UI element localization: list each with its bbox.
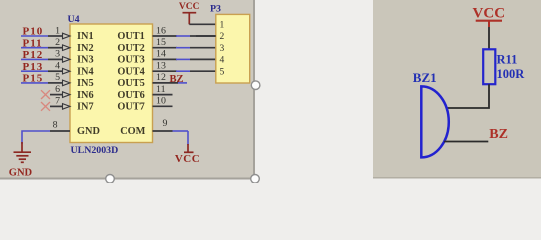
svg-text:P11: P11 <box>23 37 43 49</box>
right schematic panel background <box>373 0 541 178</box>
wire pin 8 to ground <box>22 131 50 144</box>
ground symbol GND <box>14 142 32 162</box>
svg-text:100R: 100R <box>497 67 526 81</box>
svg-text:IN6: IN6 <box>77 90 94 101</box>
svg-text:13: 13 <box>156 61 166 72</box>
svg-text:BZ1: BZ1 <box>413 70 437 85</box>
power symbol VCC (top, P3 pin 1) <box>183 13 197 25</box>
svg-text:11: 11 <box>156 84 166 95</box>
svg-text:OUT6: OUT6 <box>117 90 144 101</box>
pin 3 IN3 <box>48 49 70 63</box>
svg-text:GND: GND <box>9 168 33 179</box>
pin 12 OUT5 wire with net BZ <box>153 72 188 83</box>
svg-text:4: 4 <box>220 56 225 66</box>
svg-text:5: 5 <box>220 67 225 77</box>
selection handle bottom-right <box>251 175 260 184</box>
svg-text:ULN2003D: ULN2003D <box>71 145 119 156</box>
no-connect X on pin 6 <box>41 90 50 99</box>
pin 5 IN5 <box>48 72 70 86</box>
svg-text:P12: P12 <box>23 49 44 61</box>
svg-text:R11: R11 <box>497 53 518 67</box>
wire VCC to P3 pin 1 <box>189 23 216 25</box>
svg-text:P15: P15 <box>23 73 44 85</box>
pin 2 IN2 <box>48 37 70 51</box>
P3 pin numbers 1-5 <box>220 21 225 78</box>
svg-text:GND: GND <box>77 126 100 137</box>
svg-text:9: 9 <box>163 118 168 129</box>
svg-text:3: 3 <box>55 49 60 60</box>
connector P3 body <box>216 14 250 83</box>
svg-text:3: 3 <box>220 44 225 54</box>
selection handle middle-right <box>251 81 260 90</box>
pin 4 IN4 <box>48 61 70 75</box>
svg-text:2: 2 <box>55 37 60 48</box>
wire net P12 to pin 3 <box>21 58 48 60</box>
svg-text:IN1: IN1 <box>77 31 94 42</box>
svg-text:P3: P3 <box>210 3 221 14</box>
power symbol VCC bar (right panel) <box>476 20 502 22</box>
svg-text:BZ: BZ <box>170 74 184 85</box>
svg-text:15: 15 <box>156 37 166 48</box>
svg-text:COM: COM <box>120 126 145 137</box>
pin 10 OUT7 stub <box>153 96 173 107</box>
left panel selection border (right and bottom) <box>0 0 255 179</box>
svg-text:5: 5 <box>55 72 60 83</box>
svg-text:12: 12 <box>156 72 166 83</box>
power symbol VCC (below COM) <box>184 144 194 152</box>
right panel bottom edge <box>373 177 541 179</box>
pin 7 IN7 <box>50 96 70 110</box>
svg-text:OUT1: OUT1 <box>117 31 144 42</box>
P3 pin 2 stub <box>196 35 216 37</box>
svg-text:1: 1 <box>55 25 60 36</box>
wire net P15 to pin 5 <box>21 82 48 84</box>
wire COM down to VCC <box>187 131 189 145</box>
svg-text:U4: U4 <box>68 14 80 25</box>
page background <box>0 0 541 183</box>
svg-text:OUT3: OUT3 <box>117 55 144 66</box>
wire net P10 to pin 1 <box>21 35 48 37</box>
pin 13 OUT4 wire to P3 pin 5 <box>153 61 217 72</box>
no-connect X on pin 7 <box>41 102 50 111</box>
resistor R11 body <box>483 49 495 84</box>
svg-text:OUT2: OUT2 <box>117 43 144 54</box>
wire net P11 to pin 2 <box>21 47 48 49</box>
pin 11 OUT6 stub <box>153 84 173 95</box>
wire net P13 to pin 4 <box>21 70 48 72</box>
pin 1 IN1 <box>48 25 70 39</box>
svg-text:2: 2 <box>220 32 225 42</box>
svg-text:16: 16 <box>156 25 166 36</box>
pin 6 IN6 <box>50 84 70 98</box>
svg-text:P10: P10 <box>23 26 44 38</box>
wire VCC to resistor R11 <box>488 21 490 27</box>
svg-text:VCC: VCC <box>473 5 506 21</box>
pin 8 GND <box>50 120 70 132</box>
left schematic panel background <box>0 0 254 179</box>
wire resistor to buzzer top pin <box>447 84 490 108</box>
svg-text:OUT7: OUT7 <box>117 102 144 113</box>
pin 14 OUT3 wire to P3 pin 4 <box>153 49 217 60</box>
svg-text:10: 10 <box>156 96 166 107</box>
svg-text:OUT5: OUT5 <box>117 78 144 89</box>
svg-text:IN5: IN5 <box>77 78 94 89</box>
selection handle bottom-middle <box>106 175 115 184</box>
buzzer bottom pin wire to net BZ <box>444 141 488 143</box>
svg-text:VCC: VCC <box>179 2 200 12</box>
pin 15 OUT2 wire to P3 pin 3 <box>153 37 217 48</box>
svg-text:1: 1 <box>220 21 225 31</box>
svg-text:8: 8 <box>53 120 58 131</box>
IC U4 body <box>70 24 153 143</box>
buzzer BZ1 symbol <box>421 86 448 157</box>
svg-text:7: 7 <box>55 96 60 107</box>
svg-text:4: 4 <box>55 61 60 72</box>
svg-text:BZ: BZ <box>489 127 508 142</box>
svg-text:P13: P13 <box>23 61 44 73</box>
svg-text:IN3: IN3 <box>77 55 94 66</box>
svg-text:14: 14 <box>156 49 166 60</box>
svg-text:6: 6 <box>55 84 60 95</box>
svg-text:OUT4: OUT4 <box>117 66 144 77</box>
svg-text:IN2: IN2 <box>77 43 94 54</box>
svg-text:VCC: VCC <box>175 153 200 165</box>
pin 9 COM wire <box>153 118 189 131</box>
svg-text:IN4: IN4 <box>77 66 94 77</box>
pin 16 OUT1 wire to P3 pin 2 <box>153 25 217 36</box>
svg-text:IN7: IN7 <box>77 102 94 113</box>
